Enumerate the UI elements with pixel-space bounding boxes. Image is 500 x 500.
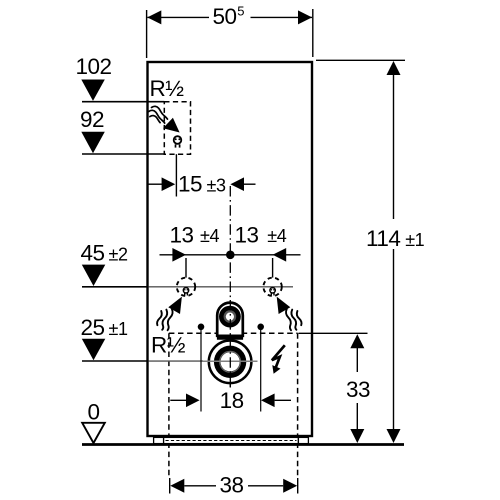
big dashed rect (lower connection zone) [169,333,298,477]
dashed circle left [177,278,195,296]
leader line 102 [82,101,164,103]
flush bend outer circle [209,341,252,384]
svg-text:18: 18 [220,388,244,413]
svg-text:0: 0 [88,400,100,425]
top supply symbol [174,136,182,147]
svg-text:±2: ±2 [109,244,128,264]
svg-text:102: 102 [76,54,112,79]
centerline (dash-dot) [229,186,231,390]
module outline [148,62,313,436]
foot left [154,437,164,443]
dim 13/13 line [160,254,301,256]
svg-text:±4: ±4 [267,226,286,246]
leader line 25 [82,360,149,362]
lightning bolt [272,345,285,374]
svg-text:5: 5 [237,4,244,19]
flush pipe connector (keyhole) [217,303,243,336]
svg-text:13: 13 [170,222,194,247]
supply pipe stub [175,154,177,196]
fixing dot left [198,324,205,331]
upper dashed rect (R1/2 supply) [164,102,190,155]
centerline over mechanism [229,300,231,390]
top supply arrow [163,118,180,133]
level marker 0 (open) [82,423,105,443]
dim 114 right [316,59,405,61]
svg-text:R½: R½ [151,333,186,358]
flush bend thick ring [214,346,246,378]
level marker 92 [81,132,105,153]
connector rings [219,306,241,328]
svg-text:92: 92 [80,107,104,132]
box bottom plinth [148,435,312,437]
symbol in right circle [270,288,275,296]
svg-text:±1: ±1 [109,319,128,339]
level marker 45 [82,265,106,286]
svg-text:45: 45 [81,240,105,265]
svg-text:33: 33 [346,377,370,402]
svg-text:R½: R½ [150,76,185,101]
floor line [82,443,404,446]
lower-right waves [286,309,302,330]
dim 15 +-3 [148,183,163,185]
level marker 25 [82,339,106,360]
base plate [164,437,299,443]
svg-text:±4: ±4 [200,226,219,246]
svg-text:114: 114 [366,226,400,251]
symbol in left circle [183,288,188,296]
dim 33 right [299,332,368,334]
center dot [226,251,235,260]
svg-text:15: 15 [178,172,202,197]
svg-text:25: 25 [81,315,105,340]
dim 18 [170,399,187,401]
svg-text:±1: ±1 [405,230,424,250]
svg-text:38: 38 [220,473,244,498]
fixing dot right [257,324,264,331]
ext lines to circles [185,258,187,278]
level marker 102 [81,80,105,101]
dim 38 bottom [169,478,171,494]
base plate dashed inner line [166,440,297,442]
svg-text:±3: ±3 [207,175,226,195]
dim 50.5 top [146,10,148,58]
top wave icon [149,106,168,123]
foot right [298,437,308,443]
lower-left waves [157,309,173,330]
dashed circle right [263,278,281,296]
svg-text:13: 13 [235,222,259,247]
gray crosshair through flush bend [203,360,258,362]
lower-left wave icon arrow [168,297,182,314]
leader line 45 [82,286,149,288]
leader line 92 [82,153,164,155]
lower-right wave icon arrow [277,297,291,314]
svg-text:50: 50 [213,4,237,29]
